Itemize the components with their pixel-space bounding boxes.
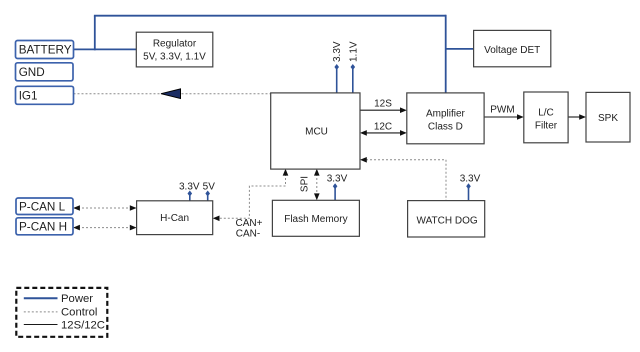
block WATCH DOG bbox=[408, 201, 485, 237]
svg-text:1.1V: 1.1V bbox=[348, 41, 359, 62]
svg-text:SPK: SPK bbox=[598, 113, 618, 124]
arrowhead on IG1 control line (large navy, points left) bbox=[161, 89, 181, 99]
wire 12C: MCU to Amplifier (bidirectional) bbox=[365, 132, 401, 134]
block SPK bbox=[586, 92, 630, 142]
svg-text:H-Can: H-Can bbox=[160, 213, 189, 224]
svg-text:Class D: Class D bbox=[428, 122, 463, 133]
svg-text:IG1: IG1 bbox=[19, 90, 38, 103]
wire control CAN: MCU to H-Can (dashed) bbox=[218, 174, 286, 218]
block P-CAN H bbox=[16, 218, 73, 235]
svg-text:12S: 12S bbox=[374, 99, 392, 110]
svg-text:Filter: Filter bbox=[535, 120, 558, 131]
svg-text:5V, 3.3V, 1.1V: 5V, 3.3V, 1.1V bbox=[143, 52, 206, 63]
wire power: riser from BATTERY wire up to top rail bbox=[94, 16, 96, 51]
svg-text:3.3V: 3.3V bbox=[460, 173, 481, 184]
block Flash Memory bbox=[272, 200, 359, 236]
svg-text:3.3V: 3.3V bbox=[179, 182, 200, 193]
block Voltage DET bbox=[474, 30, 551, 66]
power pin 1.1V on MCU bbox=[352, 68, 354, 93]
svg-text:3.3V: 3.3V bbox=[327, 173, 348, 184]
wire power: branch to Voltage DET bbox=[446, 48, 474, 50]
wire: L/C Filter to SPK bbox=[568, 116, 579, 118]
svg-text:SPI: SPI bbox=[300, 176, 311, 192]
svg-text:WATCH DOG: WATCH DOG bbox=[417, 215, 478, 226]
svg-text:PWM: PWM bbox=[490, 104, 514, 115]
svg-text:GND: GND bbox=[19, 66, 45, 79]
wire power: top rail across bbox=[94, 15, 446, 17]
legend box bbox=[16, 288, 107, 337]
block H-Can bbox=[137, 201, 213, 235]
legend Control sample line bbox=[24, 311, 58, 313]
wire control: P-CAN H to H-Can (dashed, bidirectional) bbox=[78, 227, 132, 229]
svg-text:3.3V: 3.3V bbox=[332, 41, 343, 62]
svg-text:5V: 5V bbox=[203, 182, 216, 193]
power pin 5V on H-Can bbox=[207, 194, 209, 201]
wire PWM: Amplifier to L/C Filter bbox=[484, 116, 517, 118]
svg-text:Regulator: Regulator bbox=[153, 39, 197, 50]
power pin 3.3V on WATCH DOG bbox=[468, 187, 470, 201]
legend 12S/12C sample line bbox=[24, 324, 58, 326]
wire control: IG1 to MCU (dashed) bbox=[74, 93, 271, 95]
svg-text:Flash Memory: Flash Memory bbox=[284, 214, 347, 225]
block Regulator bbox=[136, 32, 213, 67]
svg-text:Amplifier: Amplifier bbox=[426, 109, 466, 120]
svg-text:L/C: L/C bbox=[538, 107, 554, 118]
svg-text:MCU: MCU bbox=[305, 127, 328, 138]
svg-text:Voltage DET: Voltage DET bbox=[484, 45, 540, 56]
svg-text:CAN-: CAN- bbox=[236, 229, 260, 240]
wire control: P-CAN L to H-Can (dashed, bidirectional) bbox=[78, 207, 132, 209]
wire control: MCU to WATCH DOG (dashed) bbox=[366, 160, 446, 201]
wire control SPI: MCU to Flash Memory (dashed, bidirectional) bbox=[316, 174, 318, 195]
svg-text:CAN+: CAN+ bbox=[236, 218, 263, 229]
legend Power sample line bbox=[24, 297, 58, 299]
svg-text:12S/12C: 12S/12C bbox=[61, 319, 105, 331]
block P-CAN L bbox=[16, 198, 73, 215]
block L/C Filter bbox=[524, 92, 568, 143]
block BATTERY bbox=[16, 41, 74, 59]
svg-text:P-CAN L: P-CAN L bbox=[19, 201, 66, 214]
svg-text:Power: Power bbox=[61, 293, 93, 305]
power pin 3.3V on MCU bbox=[336, 68, 338, 93]
block GND bbox=[16, 63, 74, 81]
power pin 3.3V on H-Can bbox=[189, 194, 191, 201]
wire 12S: MCU to Amplifier bbox=[360, 109, 401, 111]
block MCU bbox=[271, 93, 360, 169]
wire power: BATTERY to Regulator bbox=[74, 48, 137, 50]
svg-text:12C: 12C bbox=[374, 121, 392, 132]
svg-text:Control: Control bbox=[61, 307, 97, 319]
svg-text:P-CAN H: P-CAN H bbox=[19, 221, 67, 234]
svg-text:BATTERY: BATTERY bbox=[19, 44, 72, 57]
block Amplifier Class D bbox=[407, 93, 484, 144]
block IG1 bbox=[16, 86, 74, 104]
power pin 3.3V on Flash Memory bbox=[334, 187, 336, 200]
wire power: drop from top rail to Amplifier Class D bbox=[445, 15, 447, 93]
